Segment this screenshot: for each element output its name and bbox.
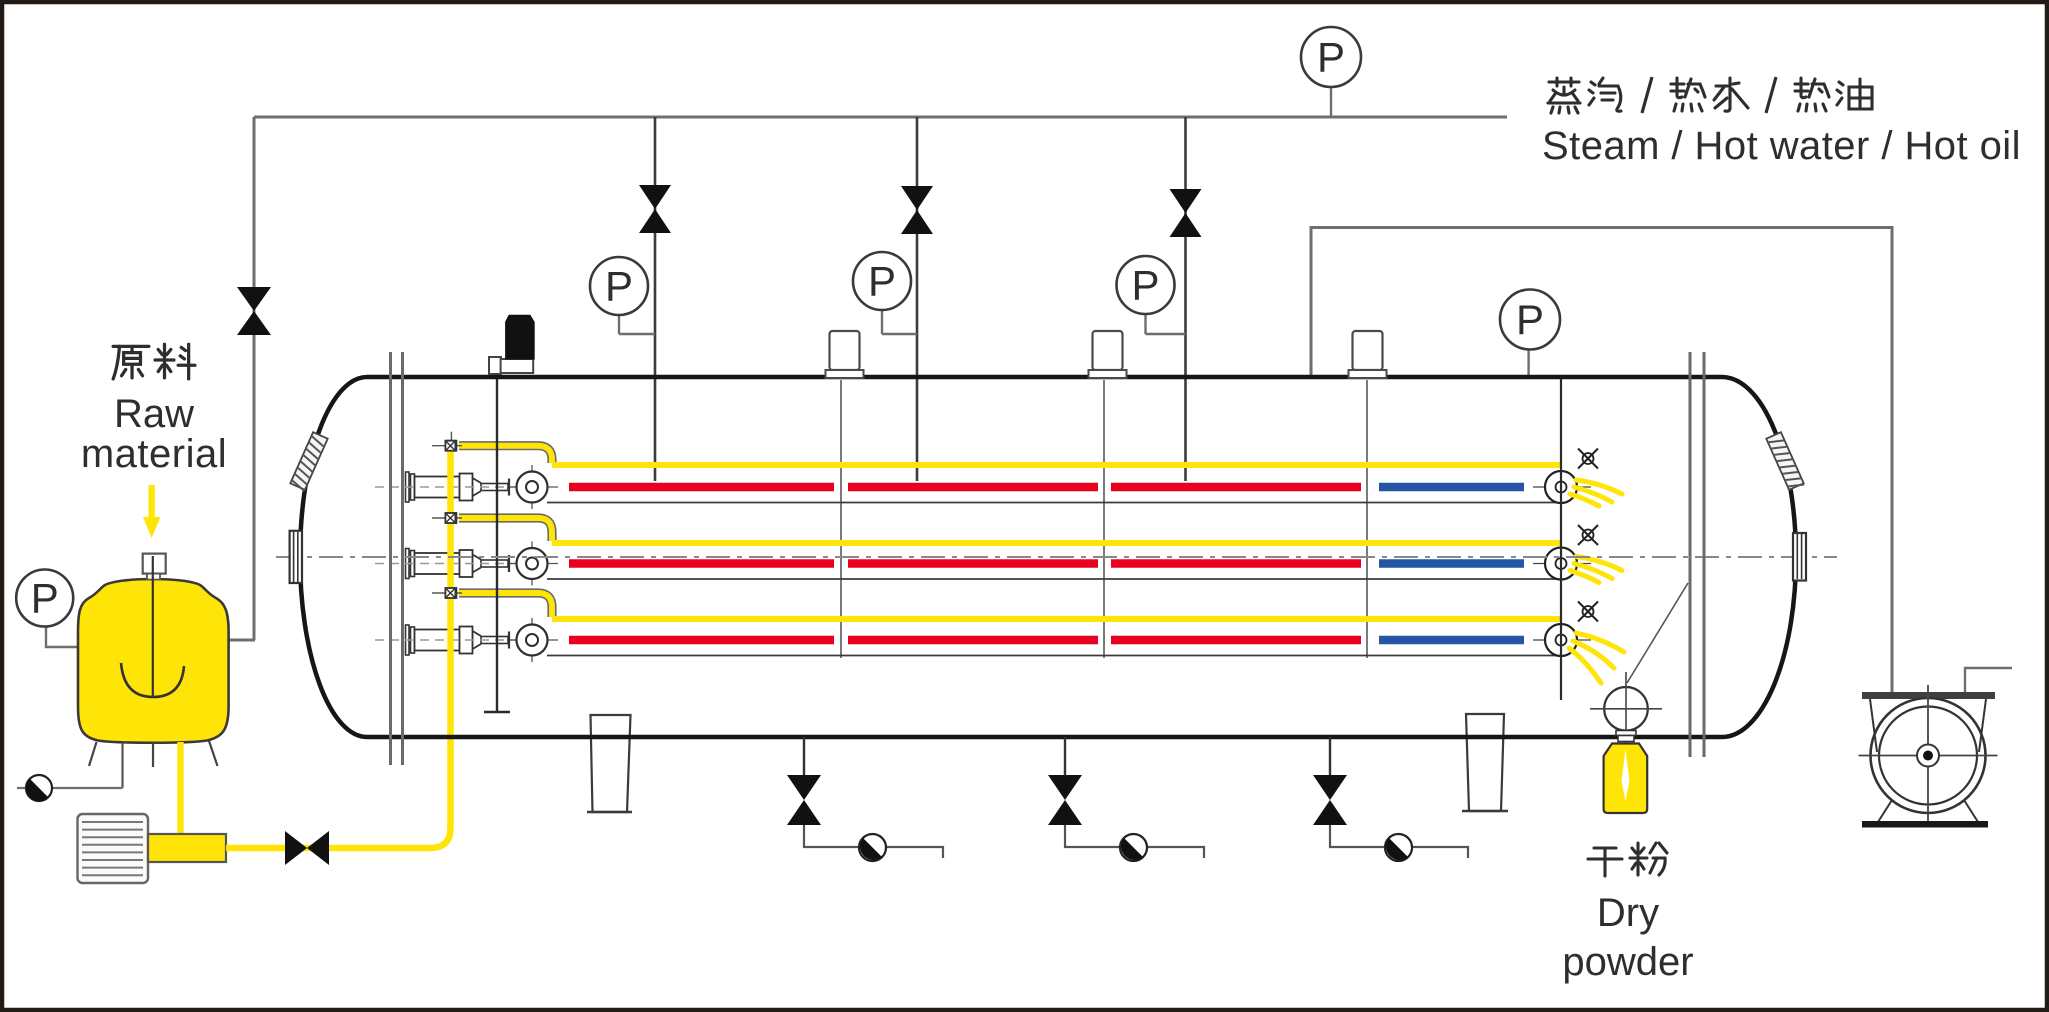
svg-text:Raw: Raw	[114, 392, 194, 436]
svg-text:Dry: Dry	[1597, 891, 1659, 935]
svg-text:Steam / Hot water / Hot oil: Steam / Hot water / Hot oil	[1542, 124, 2021, 168]
svg-text:P: P	[605, 263, 633, 310]
svg-text:P: P	[1131, 262, 1159, 309]
svg-text:powder: powder	[1562, 940, 1693, 984]
svg-text:P: P	[1516, 296, 1544, 343]
svg-text:P: P	[31, 575, 59, 622]
svg-text:material: material	[81, 432, 227, 476]
svg-text:P: P	[1317, 34, 1345, 81]
svg-text:P: P	[868, 258, 896, 305]
